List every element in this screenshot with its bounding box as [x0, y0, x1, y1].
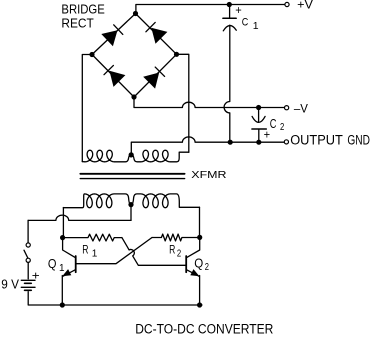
wire C2 top lead	[258, 108, 260, 123]
wire primary center tap to battery line	[130, 205, 132, 221]
transformer secondary right winding	[131, 150, 189, 162]
node Q1 collector junction	[60, 235, 65, 240]
wire switch to battery	[27, 263, 29, 279]
svg-text:2: 2	[177, 248, 182, 259]
node C1 bottom junction	[228, 140, 233, 145]
svg-text:R: R	[169, 243, 175, 257]
wire output gnd line (hops vertical)	[131, 137, 284, 155]
label C1	[242, 17, 259, 32]
wire battery to bottom rail	[28, 292, 202, 305]
label BRIDGE RECT	[61, 1, 105, 30]
wire primary right to Q2 collector	[199, 207, 201, 237]
wire C1 to output gnd (hops -V line)	[224, 25, 230, 142]
terminal +V	[285, 2, 289, 6]
capacitor C2	[252, 116, 266, 129]
wire bridge top-right edge	[136, 14, 177, 55]
svg-text:1: 1	[92, 248, 98, 259]
node C2 top junction	[256, 105, 261, 110]
node Q1 emitter junction	[60, 302, 65, 307]
diode D3 (bottom node to left node)	[104, 65, 125, 87]
wire primary left to Q1 collector	[62, 208, 64, 238]
wire Q1 emitter to rail	[61, 276, 63, 306]
wire C2 bottom lead	[258, 129, 260, 142]
svg-text:Q: Q	[48, 256, 57, 271]
wire C1 lead from +V rail	[229, 5, 231, 18]
svg-text:BRIDGE: BRIDGE	[61, 1, 105, 16]
svg-text:OUTPUT: OUTPUT	[290, 132, 343, 147]
svg-text:C: C	[242, 17, 249, 29]
svg-text:2: 2	[280, 122, 284, 133]
wire +V rail	[136, 5, 285, 14]
wire bridge bottom-left edge	[92, 55, 134, 98]
label Q2	[194, 256, 209, 273]
node Q2 emitter junction	[197, 302, 202, 307]
battery BT1 9V	[21, 280, 35, 290]
wire bridge left node to secondary	[82, 55, 92, 162]
svg-text:Q: Q	[194, 256, 203, 271]
svg-text:+V: +V	[297, 0, 313, 11]
node primary center tap	[128, 202, 133, 207]
svg-text:GND: GND	[347, 132, 370, 147]
wire battery plus line (hops collector line)	[28, 215, 131, 220]
Q1 emitter arrow	[62, 269, 71, 276]
svg-text:+: +	[235, 3, 242, 17]
transistor Q1	[63, 238, 76, 277]
switch S1	[24, 243, 30, 263]
svg-text:C: C	[270, 116, 277, 131]
transformer primary left winding	[63, 194, 131, 208]
svg-text:–V: –V	[294, 101, 308, 115]
label R2	[169, 243, 181, 260]
svg-text:RECT: RECT	[61, 15, 93, 30]
svg-text:DC-TO-DC CONVERTER: DC-TO-DC CONVERTER	[135, 322, 273, 337]
diode D1 (left node to top node)	[101, 25, 123, 46]
wire bridge right node to secondary	[177, 54, 189, 152]
transistor Q2	[186, 237, 200, 276]
wire bridge top-left edge	[92, 14, 136, 55]
resistor R2	[152, 234, 200, 241]
node C2 bottom junction	[256, 140, 261, 145]
wire Q2 emitter to rail	[199, 276, 201, 306]
label C2	[270, 116, 285, 133]
wire switch drop	[27, 220, 29, 243]
wire R1 to Q2 base (hops crossing)	[122, 238, 186, 266]
resistor R1	[63, 234, 122, 241]
transformer core	[80, 174, 184, 179]
node bridge left	[89, 52, 94, 57]
svg-text:R: R	[82, 243, 88, 257]
node bridge bottom	[131, 94, 136, 99]
node secondary center tap	[129, 152, 134, 157]
Q2 emitter arrow	[190, 269, 199, 276]
node bridge right	[174, 52, 179, 57]
svg-text:1: 1	[59, 263, 65, 274]
label Q1	[48, 256, 65, 274]
transformer secondary left winding	[82, 150, 131, 162]
label OUTPUT GND	[290, 132, 370, 147]
label R1	[82, 243, 98, 260]
node C1 top junction	[227, 2, 232, 7]
wire bridge bottom to -V line (hops vertical)	[134, 97, 285, 108]
diode D4 (bottom node to right node)	[143, 67, 164, 89]
svg-text:1: 1	[253, 20, 259, 32]
terminal OUTPUT GND	[284, 140, 288, 144]
svg-text:XFMR: XFMR	[191, 170, 226, 181]
node Q2 collector junction	[197, 235, 202, 240]
node bridge top	[133, 11, 138, 16]
svg-text:9 V: 9 V	[1, 277, 19, 292]
wire R2 to Q1 base	[76, 238, 152, 264]
terminal -V	[285, 106, 289, 110]
transformer primary right winding	[131, 194, 200, 208]
wire bridge bottom-right edge	[134, 54, 177, 97]
diode D2 (right node to top node)	[146, 22, 168, 43]
capacitor C1	[223, 18, 236, 31]
svg-text:2: 2	[205, 262, 210, 273]
